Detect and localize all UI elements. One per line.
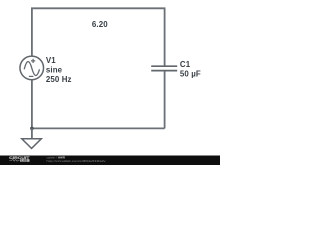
label: C1 / 50 uF [180, 60, 201, 79]
wire bottom run between ground node and C1 branch [32, 127, 165, 129]
svg-text:LAB: LAB [21, 160, 28, 163]
svg-text:50 µF: 50 µF [180, 69, 201, 78]
watermark bar [0, 156, 220, 166]
svg-text:http://circuitlab.com/c4834e53: http://circuitlab.com/c4834e533fa3v [47, 159, 107, 163]
wire ground stem [31, 128, 33, 138]
voltage source V1 (sine symbol with + and - marks) [20, 56, 44, 80]
svg-text:C1: C1 [180, 60, 191, 69]
ground symbol [22, 139, 42, 149]
wire from V1 top terminal over top run to C1 top terminal [32, 8, 165, 65]
svg-text:6.20: 6.20 [92, 20, 108, 29]
wire from C1 bottom terminal down to bottom run [164, 71, 166, 128]
wire from V1 bottom terminal down to bottom node [31, 80, 33, 129]
capacitor C1 [151, 66, 177, 70]
junction dot at ground node [30, 127, 34, 131]
svg-text:250 Hz: 250 Hz [46, 75, 72, 84]
label: V1 / sine / 250 Hz [46, 56, 72, 84]
watermark logo LAB box [20, 159, 29, 162]
svg-text:sine: sine [46, 65, 63, 74]
svg-text:V1: V1 [46, 56, 56, 65]
watermark logo waveform [9, 160, 19, 162]
